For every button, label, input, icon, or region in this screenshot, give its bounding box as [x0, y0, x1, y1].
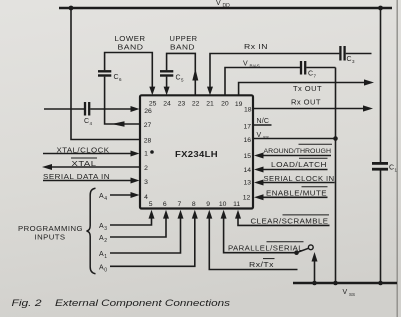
svg-text:23: 23: [178, 100, 186, 107]
VDD rail: [59, 7, 392, 9]
svg-text:Fig. 2: Fig. 2: [12, 298, 43, 308]
svg-text:16: 16: [244, 137, 252, 144]
svg-text:INPUTS: INPUTS: [35, 235, 66, 242]
arrow into pin 8: [192, 210, 198, 219]
page border right: [397, 0, 398, 317]
node VSS x314: [312, 281, 317, 286]
svg-text:6: 6: [163, 201, 167, 208]
arrow into pin 15: [254, 153, 264, 159]
wire right rail upper: [380, 8, 382, 162]
wire SERIAL CLOCK IN to pin 13: [262, 182, 335, 184]
arrow into pin 6: [163, 210, 169, 219]
svg-text:0: 0: [104, 268, 107, 274]
arrow into pin 9: [206, 210, 212, 219]
capacitor C6: [98, 70, 111, 72]
wire LOWER BAND bracket: [105, 53, 153, 88]
svg-text:CLEAR/SCRAMBLE: CLEAR/SCRAMBLE: [251, 219, 329, 226]
arrow XTAL out: [42, 164, 52, 170]
svg-text:BIAS: BIAS: [250, 64, 260, 69]
wire VSS pin 16: [253, 138, 336, 140]
svg-text:26: 26: [144, 108, 152, 115]
arrow into pin 4: [131, 192, 140, 198]
wire CLEAR/SCRAMBLE from pin 11: [238, 218, 330, 225]
svg-text:2: 2: [104, 238, 107, 244]
svg-text:SERIAL DATA IN: SERIAL DATA IN: [43, 174, 110, 181]
wire VDD left drop to pin 28: [71, 8, 140, 140]
wire LOAD/LATCH to pin 14: [262, 169, 328, 171]
node VSS x335: [333, 281, 338, 286]
wire Rx/Tx from pin 9: [209, 218, 297, 270]
svg-text:SS: SS: [263, 135, 269, 140]
arrow into pin 1: [131, 151, 140, 157]
overline SCRAMBLE: [283, 214, 330, 216]
wire Rx OUT from pin 18: [253, 108, 364, 110]
svg-text:5: 5: [149, 201, 153, 208]
wire PARALLEL/SERIAL from pin 10: [224, 218, 295, 253]
arrow into pin 24: [164, 87, 170, 96]
switch contact circle: [308, 245, 313, 250]
overlines: [71, 144, 332, 258]
arrow into pin 26: [131, 106, 140, 112]
svg-text:10: 10: [219, 201, 227, 208]
svg-text:XTAL: XTAL: [72, 161, 97, 168]
svg-text:17: 17: [244, 123, 252, 130]
svg-text:BAND: BAND: [170, 45, 195, 52]
wire Tx OUT from pin 19: [239, 83, 365, 96]
svg-text:V: V: [216, 0, 221, 7]
svg-text:1: 1: [144, 150, 148, 157]
capacitor C1: [372, 162, 388, 165]
overline SERIAL of PARALLEL: [267, 241, 304, 243]
wire UPPER BAND bracket: [167, 53, 196, 95]
svg-text:SERIAL CLOCK IN: SERIAL CLOCK IN: [264, 176, 335, 183]
wire switch arm from VSS: [314, 261, 316, 283]
wire VBIAS pin 20: [225, 68, 300, 96]
overline LATCH: [299, 157, 328, 159]
node VDD right corner: [378, 6, 383, 11]
arrow left pin 27 wire: [112, 121, 125, 127]
brace programming inputs: [87, 188, 96, 273]
arrow into pin 5: [149, 210, 155, 219]
svg-text:3: 3: [104, 226, 107, 232]
svg-text:XTAL/CLOCK: XTAL/CLOCK: [57, 147, 110, 154]
wire Rx IN to pin 21: [210, 54, 339, 88]
pin 1 dot: [150, 150, 154, 154]
wire AROUND/THROUGH to pin 15: [262, 155, 331, 157]
arrow up pin 22: [192, 69, 198, 81]
svg-text:14: 14: [244, 167, 252, 174]
svg-text:27: 27: [144, 122, 152, 129]
svg-text:25: 25: [149, 100, 157, 107]
svg-text:SS: SS: [349, 292, 355, 297]
svg-text:11: 11: [233, 201, 240, 208]
svg-text:15: 15: [244, 153, 252, 160]
svg-text:PARALLEL/SERIAL: PARALLEL/SERIAL: [228, 246, 303, 253]
svg-text:8: 8: [192, 201, 196, 208]
svg-text:12: 12: [243, 194, 251, 201]
capacitor C5: [160, 70, 173, 72]
arrow Tx OUT: [364, 79, 374, 85]
svg-text:1: 1: [104, 254, 107, 260]
wire SERIAL DATA IN to pin 3: [43, 180, 131, 182]
wire right rail lower: [380, 171, 382, 284]
wire C7 to vertical: [306, 67, 335, 69]
svg-text:LOWER: LOWER: [115, 36, 146, 43]
svg-text:9: 9: [206, 201, 210, 208]
svg-text:Rx OUT: Rx OUT: [291, 100, 321, 107]
svg-text:ENABLE/MUTE: ENABLE/MUTE: [266, 191, 327, 198]
svg-text:13: 13: [244, 179, 252, 186]
arrowheads: [42, 69, 374, 262]
wire A0 to pin 8: [110, 218, 195, 266]
svg-text:Tx OUT: Tx OUT: [293, 86, 322, 93]
arrow Rx OUT: [363, 105, 373, 111]
svg-text:19: 19: [235, 101, 243, 108]
svg-text:FX234LH: FX234LH: [175, 149, 218, 159]
wire C6 leg down to pin 27 wire: [105, 77, 140, 124]
svg-text:7: 7: [178, 201, 182, 208]
arrow into pin 12: [254, 194, 264, 200]
arrow into pin 21: [207, 87, 213, 96]
wire XTAL out pin 2: [51, 166, 140, 168]
capacitor C4: [84, 102, 86, 116]
capacitor C7: [300, 61, 302, 75]
svg-text:AROUND/THROUGH: AROUND/THROUGH: [264, 148, 332, 155]
svg-text:N/C: N/C: [257, 118, 270, 125]
arrow into pin 3: [131, 178, 140, 184]
wire A1 to pin 7: [110, 218, 181, 253]
svg-text:PROGRAMMING: PROGRAMMING: [18, 226, 83, 233]
wire C4 to chip: [90, 108, 131, 110]
svg-text:DD: DD: [223, 3, 231, 9]
overline Tx: [263, 258, 275, 260]
svg-text:20: 20: [221, 100, 229, 107]
chip pin numbers: [144, 100, 252, 208]
svg-text:Rx/Tx: Rx/Tx: [249, 262, 274, 269]
node x335 Vss pin16: [333, 136, 338, 141]
svg-text:BAND: BAND: [118, 45, 144, 52]
wire Rx IN right of C3: [346, 53, 372, 55]
svg-text:2: 2: [144, 165, 148, 172]
svg-text:LOAD/LATCH: LOAD/LATCH: [271, 162, 327, 169]
op chip FX234LH outline: [140, 95, 253, 208]
svg-text:4: 4: [144, 194, 148, 201]
svg-text:22: 22: [192, 100, 200, 107]
svg-text:18: 18: [244, 106, 252, 113]
VSS rail: [293, 282, 397, 284]
svg-text:Rx IN: Rx IN: [244, 44, 268, 51]
svg-text:24: 24: [163, 100, 171, 107]
switch pivot dot: [294, 250, 299, 255]
wire A3 to pin 5: [110, 218, 152, 225]
arrow into pin 13: [254, 180, 264, 186]
svg-text:V: V: [243, 61, 248, 68]
svg-text:UPPER: UPPER: [170, 36, 198, 43]
wire C5 leg to pin 24: [166, 77, 168, 87]
svg-text:4: 4: [104, 196, 107, 202]
svg-text:External Component Connections: External Component Connections: [55, 298, 230, 308]
overline XTAL: [71, 157, 97, 159]
svg-text:V: V: [343, 289, 348, 296]
switch lever: [297, 248, 309, 252]
wire vertical x335 to VSS rail: [335, 68, 337, 284]
svg-text:21: 21: [206, 100, 214, 107]
wire N/C stub pin 17: [253, 124, 272, 126]
wire XTAL/CLOCK to pin 1: [43, 153, 131, 155]
arrow into pin 10: [221, 210, 227, 219]
svg-text:28: 28: [144, 138, 152, 145]
wire C4 line into pin 26: [44, 108, 84, 110]
svg-text:3: 3: [144, 179, 148, 186]
node VDD left corner: [69, 6, 74, 11]
arrow switch up: [312, 252, 318, 262]
arrow into pin 25: [149, 87, 155, 96]
arrow into pin 14: [254, 167, 264, 173]
svg-text:V: V: [257, 132, 262, 139]
capacitor C3: [339, 46, 341, 61]
node VSS x380: [378, 281, 383, 286]
wire ENABLE/MUTE to pin 12: [262, 196, 328, 198]
overline THROUGH: [299, 143, 333, 145]
wire A4 to pin 4: [110, 194, 131, 196]
wire A2 to pin 6: [110, 218, 166, 237]
arrow into pin 11: [235, 210, 241, 219]
overline MUTE: [302, 186, 328, 188]
arrow into pin 7: [178, 210, 184, 219]
